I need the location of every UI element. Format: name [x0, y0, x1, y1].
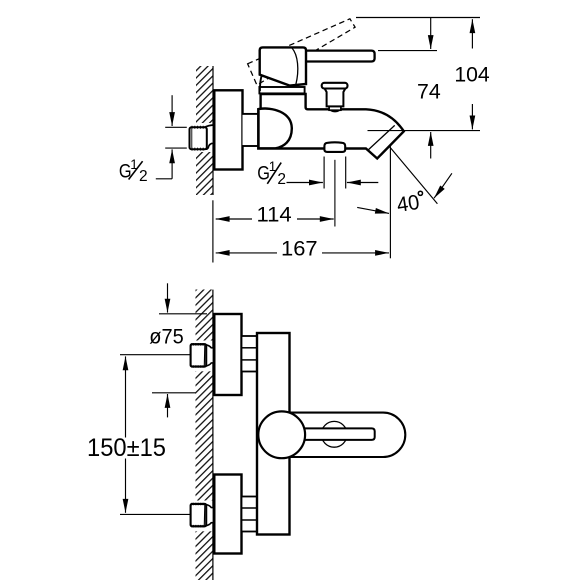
dim 167 [216, 252, 277, 254]
40 deg arc arrow [434, 173, 452, 198]
wall hatch upper [196, 66, 213, 123]
handle cap edge [292, 48, 298, 85]
body column [257, 333, 290, 535]
handle body [260, 47, 306, 85]
svg-text:2: 2 [277, 171, 286, 188]
body dome [259, 109, 292, 149]
upper ribs [242, 336, 258, 372]
dim 150+-15 lines [125, 356, 127, 437]
dim 74 [430, 18, 432, 50]
upper nut [191, 344, 207, 366]
svg-text:40: 40 [395, 191, 421, 217]
dim reference line top (104) [356, 17, 480, 19]
handle collar [259, 87, 304, 93]
svg-text:150±15: 150±15 [87, 434, 166, 462]
svg-text:104: 104 [454, 63, 489, 87]
wall hatch lower [196, 152, 213, 195]
lower escutcheon [214, 475, 241, 554]
dim reference line spout (74/104) [368, 130, 481, 132]
lower ribs [242, 497, 258, 532]
screw boss circle [321, 421, 347, 447]
centerline bottom connection [334, 160, 336, 227]
dim 40 deg diagonal leg [390, 147, 437, 204]
aerator joint line [369, 125, 395, 149]
svg-text:2: 2 [139, 168, 148, 185]
wall face line [212, 290, 214, 580]
dim G1/2 bottom [323, 157, 325, 189]
lever rod [304, 51, 375, 62]
inlet union [204, 125, 214, 149]
lower nut [191, 504, 207, 526]
wall hatch [196, 290, 214, 341]
extension line wall [212, 200, 214, 262]
dim 40 deg vertical leg [389, 146, 391, 258]
escutcheon [214, 90, 242, 169]
dim G1/2 left [165, 126, 187, 128]
dim phi75 bottom arrow [167, 394, 169, 417]
dim phi75 top arrow [167, 283, 169, 312]
svg-text:74: 74 [417, 79, 441, 103]
diverter knob body [325, 88, 346, 106]
lever stadium [265, 413, 405, 457]
dim reference line lever top (74) [378, 50, 437, 52]
wall stub [243, 114, 258, 146]
nut thread ticks [192, 126, 203, 151]
dim 114 [216, 218, 252, 220]
upper escutcheon [214, 314, 241, 395]
faucet body [258, 94, 404, 159]
40 deg arrow left [357, 207, 389, 213]
lever bar [298, 428, 375, 440]
dim 150+-15 ticks [120, 354, 191, 356]
inlet nut [190, 127, 207, 149]
upper nut tail [206, 345, 213, 366]
svg-text:167: 167 [281, 237, 318, 260]
ball joint [258, 411, 305, 458]
lower nut tail [206, 505, 213, 526]
dim 104 [471, 19, 473, 48]
bottom connection boss [324, 142, 345, 152]
diverter knob cap [322, 83, 348, 89]
svg-text:114: 114 [257, 204, 293, 227]
svg-text:ø75: ø75 [149, 325, 184, 349]
dashed raised handle outline [248, 19, 356, 85]
diverter knob neck [329, 106, 341, 110]
wall face line [212, 66, 214, 195]
